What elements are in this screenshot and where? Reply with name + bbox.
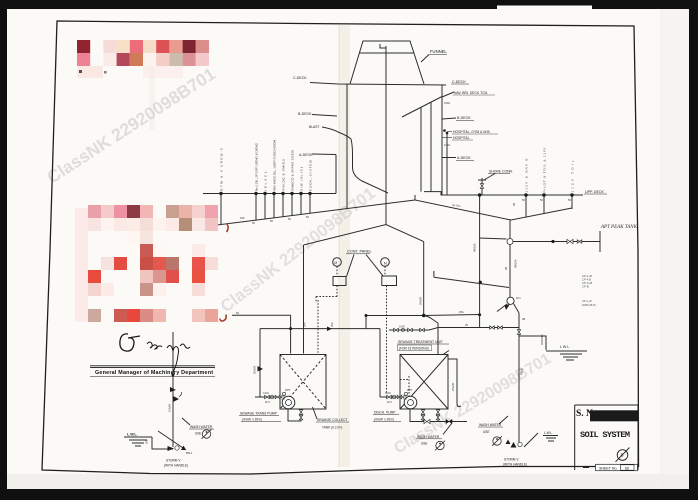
svg-text:50: 50 — [522, 198, 525, 202]
svg-text:CHO: CHO — [263, 391, 269, 395]
svg-text:ClassNK 22920098B701: ClassNK 22920098B701 — [43, 63, 219, 187]
svg-text:FUNNEL: FUNNEL — [430, 49, 447, 54]
svg-text:(WITH HANDLE): (WITH HANDLE) — [503, 463, 527, 467]
svg-text:SOIL SYSTEM: SOIL SYSTEM — [580, 430, 630, 440]
svg-text:SEWAGE TRANS PUMP: SEWAGE TRANS PUMP — [240, 412, 278, 416]
svg-text:W-3: W-3 — [265, 400, 270, 404]
svg-text:4B/25A: 4B/25A — [514, 259, 518, 268]
svg-text:4/BLDG & SM/GU: 4/BLDG & SM/GU — [282, 159, 286, 191]
svg-text:2B: 2B — [512, 203, 516, 206]
svg-text:M: M — [334, 261, 337, 265]
svg-text:50: 50 — [540, 198, 543, 202]
svg-text:STORM V.: STORM V. — [504, 458, 519, 462]
svg-text:WHT: WHT — [285, 389, 291, 392]
svg-text:C-DECK: C-DECK — [293, 76, 307, 80]
svg-text:50: 50 — [252, 221, 255, 225]
svg-text:(FOR 15 PERSONS): (FOR 15 PERSONS) — [399, 347, 429, 351]
svg-text:S/W (BLIC): S/W (BLIC) — [300, 167, 304, 191]
svg-text:25A/40: 25A/40 — [451, 382, 455, 391]
svg-text:A-DECK: A-DECK — [457, 156, 471, 160]
svg-text:UPP. DECK: UPP. DECK — [585, 190, 605, 194]
svg-text:30A/50: 30A/50 — [253, 365, 257, 374]
svg-text:OVERBD: OVERBD — [541, 334, 544, 345]
svg-text:DISCH. PUMP: DISCH. PUMP — [374, 411, 396, 415]
svg-text:M: M — [384, 261, 387, 265]
svg-text:USE: USE — [483, 430, 490, 434]
svg-text:CONT. PANEL: CONT. PANEL — [347, 250, 372, 254]
svg-text:GYM & X CREW'S: GYM & X CREW'S — [220, 148, 224, 191]
svg-text:L.W.L.: L.W.L. — [127, 433, 138, 437]
svg-text:B-DECK: B-DECK — [457, 116, 471, 120]
svg-text:4B: 4B — [504, 267, 508, 270]
svg-text:50: 50 — [306, 215, 309, 219]
svg-text:100A: 100A — [444, 143, 450, 147]
svg-text:50: 50 — [236, 311, 239, 315]
svg-text:30A/50: 30A/50 — [419, 296, 423, 305]
svg-text:HOSPITAL: HOSPITAL — [453, 136, 470, 140]
svg-text:SEWAGE TREATMENT UNIT: SEWAGE TREATMENT UNIT — [398, 340, 443, 344]
svg-text:USE: USE — [421, 442, 428, 446]
svg-text:(4m³/h x 20m): (4m³/h x 20m) — [242, 418, 262, 422]
svg-text:(4m³/h x 20m): (4m³/h x 20m) — [374, 418, 394, 422]
svg-text:50: 50 — [270, 219, 273, 223]
svg-text:TANK (0.2 m³): TANK (0.2 m³) — [322, 426, 342, 430]
svg-text:W-2: W-2 — [387, 400, 392, 404]
svg-text:SHEET No.: SHEET No. — [599, 466, 618, 470]
svg-text:30A: 30A — [330, 322, 334, 327]
svg-text:S/MECO & SPARE CREW: S/MECO & SPARE CREW — [291, 150, 295, 191]
svg-text:APT PEAK TANK: APT PEAK TANK — [600, 225, 638, 230]
svg-text:USE: USE — [195, 432, 202, 436]
svg-text:NAV. BRI. DECK TOIL: NAV. BRI. DECK TOIL — [454, 91, 488, 95]
svg-text:30A: 30A — [303, 322, 307, 327]
svg-text:ABV W/GS OIL, 1/DRY'S BED ROOM: ABV W/GS OIL, 1/DRY'S BED ROOM — [273, 140, 277, 191]
svg-text:(WITH HANDLE): (WITH HANDLE) — [164, 464, 188, 468]
svg-text:50: 50 — [288, 217, 291, 221]
svg-text:WASH WATER: WASH WATER — [190, 425, 213, 429]
svg-text:L W L: L W L — [560, 345, 569, 349]
svg-text:General Manager of Machinery D: General Manager of Machinery Department — [95, 370, 213, 376]
svg-text:BLAST: BLAST — [309, 125, 319, 129]
svg-text:SHORE CONN.: SHORE CONN. — [489, 170, 513, 174]
svg-text:PILOT & TOIL & 110V: PILOT & TOIL & 110V — [543, 147, 547, 193]
svg-text:200: 200 — [145, 439, 149, 444]
svg-text:25: 25 — [465, 323, 468, 327]
svg-text:L.W.L: L.W.L — [544, 431, 552, 435]
svg-text:VA 25A: VA 25A — [452, 203, 461, 208]
svg-text:STORM V: STORM V — [166, 459, 181, 463]
svg-text:CHO: CHO — [385, 391, 391, 395]
svg-text:150: 150 — [240, 216, 245, 220]
svg-text:110V & NAV B: 110V & NAV B — [525, 159, 529, 193]
svg-text:BW-1: BW-1 — [186, 451, 193, 455]
svg-text:4B: 4B — [522, 317, 525, 321]
svg-text:B: B — [621, 453, 624, 458]
svg-text:WASH WATER: WASH WATER — [479, 423, 502, 427]
svg-text:110V TOIL: 110V TOIL — [571, 160, 575, 192]
svg-text:No.1 OIL, SP OFF, S/ENG & D/EN: No.1 OIL, SP OFF, S/ENG & D/ENG — [255, 142, 259, 191]
svg-text:COOK, C/STEW: COOK, C/STEW — [309, 160, 313, 191]
svg-text:50: 50 — [568, 198, 571, 202]
svg-text:C-DECK: C-DECK — [452, 80, 466, 84]
svg-text:25A: 25A — [459, 310, 464, 314]
svg-text:100A: 100A — [444, 101, 450, 105]
svg-text:CP-B: CP-B — [582, 285, 589, 289]
svg-text:WHT: WHT — [407, 389, 413, 392]
svg-text:WASH WATER: WASH WATER — [417, 435, 440, 439]
svg-text:B-DECK: B-DECK — [298, 112, 312, 116]
svg-text:HOSPITAL, GYM & W.B.: HOSPITAL, GYM & W.B. — [453, 130, 490, 134]
svg-text:SEWAGE COLLECT: SEWAGE COLLECT — [317, 418, 347, 422]
svg-text:10A/50: 10A/50 — [168, 403, 172, 412]
svg-text:A-DECK: A-DECK — [299, 153, 313, 157]
svg-text:DWR-(B.P): DWR-(B.P) — [582, 303, 596, 307]
svg-text:CHO: CHO — [399, 325, 405, 329]
svg-text:69: 69 — [625, 466, 629, 470]
svg-text:W-1: W-1 — [516, 296, 521, 300]
svg-text:TK/50: TK/50 — [520, 368, 524, 375]
svg-text:4B/25A: 4B/25A — [473, 243, 477, 252]
svg-text:(BLAC): (BLAC) — [264, 172, 268, 191]
